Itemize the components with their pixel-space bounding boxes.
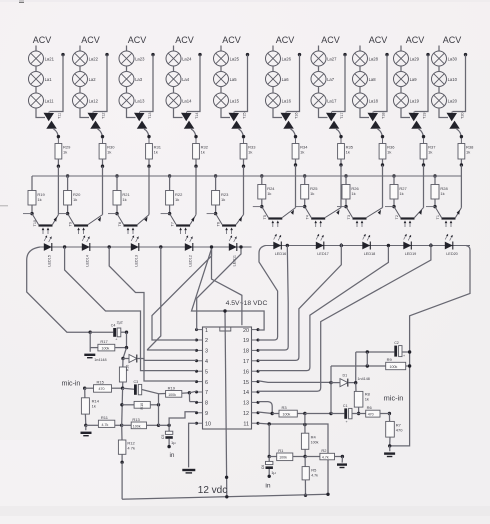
lamp La5 xyxy=(214,72,238,87)
resistor R27 1k xyxy=(390,185,408,200)
svg-text:C6: C6 xyxy=(261,465,265,469)
svg-text:4.7k: 4.7k xyxy=(102,423,109,427)
svg-text:T5: T5 xyxy=(263,215,267,219)
wire xyxy=(355,352,357,383)
node bus tap R20 xyxy=(66,174,69,177)
node ACV line 9 xyxy=(406,35,425,45)
svg-text:La13: La13 xyxy=(135,99,145,104)
svg-text:4: 4 xyxy=(205,359,208,365)
lamp La24 xyxy=(166,51,192,66)
wire xyxy=(374,55,388,112)
wire xyxy=(382,159,384,165)
node xyxy=(268,422,271,425)
svg-text:1k: 1k xyxy=(399,191,403,196)
node bus tap R23 xyxy=(214,174,217,177)
wire xyxy=(221,108,230,118)
wire xyxy=(389,446,391,451)
ground xyxy=(81,432,92,437)
wire xyxy=(94,55,108,112)
wire xyxy=(419,129,424,139)
svg-text:T12: T12 xyxy=(102,112,106,119)
wire staircase to pin 9 xyxy=(169,412,196,426)
label in left xyxy=(170,452,175,459)
svg-text:T4: T4 xyxy=(306,215,310,219)
node C6 top xyxy=(268,455,271,458)
wire xyxy=(318,46,320,52)
triac T11 xyxy=(44,112,62,129)
wire supply xyxy=(192,249,265,330)
wire xyxy=(220,66,222,72)
node AC terminal 6 xyxy=(298,53,301,56)
wire xyxy=(67,205,69,214)
diode D1 1n4148 xyxy=(331,373,370,386)
svg-text:1k: 1k xyxy=(428,150,432,155)
node ACV line 1 xyxy=(33,35,52,45)
svg-text:4 7k: 4 7k xyxy=(127,445,135,450)
node LED junction xyxy=(159,245,162,248)
node bus tap R26 xyxy=(344,174,347,177)
node bus tap R24 xyxy=(260,174,263,177)
capacitor C4 2µ2 xyxy=(90,320,126,341)
wire xyxy=(220,86,222,93)
node R30 foot xyxy=(101,165,104,168)
node C5 top xyxy=(167,424,170,427)
diode D2 1n4148 xyxy=(94,355,144,363)
wire xyxy=(295,159,297,165)
node rail center xyxy=(225,495,228,498)
svg-text:100k: 100k xyxy=(102,347,110,351)
wire xyxy=(366,352,368,366)
node ACV line 6 xyxy=(276,35,295,45)
svg-text:R17: R17 xyxy=(100,339,108,344)
svg-text:LED12: LED12 xyxy=(189,255,193,267)
svg-text:19: 19 xyxy=(243,338,249,344)
svg-text:+: + xyxy=(115,338,117,342)
svg-text:C5: C5 xyxy=(161,434,165,438)
svg-text:12 vdc: 12 vdc xyxy=(198,485,227,496)
svg-text:T14: T14 xyxy=(195,112,199,119)
svg-text:+: + xyxy=(403,354,405,358)
svg-text:T1: T1 xyxy=(436,215,440,219)
node ACV line 10 xyxy=(443,35,462,45)
node R17 right xyxy=(125,346,128,349)
wire xyxy=(189,391,196,393)
lamp La7 xyxy=(311,72,335,87)
wire xyxy=(31,176,33,191)
capacitor C3 xyxy=(123,380,159,395)
node gate 10 xyxy=(460,135,463,138)
node R37 foot xyxy=(422,163,425,166)
svg-text:1k: 1k xyxy=(201,150,205,155)
svg-text:1n4148: 1n4148 xyxy=(94,358,106,362)
wire xyxy=(243,166,245,214)
svg-text:La22: La22 xyxy=(89,57,99,62)
wire to pin 19 xyxy=(258,246,278,341)
node gate 6 xyxy=(294,135,297,138)
wire xyxy=(220,46,222,52)
svg-text:La24: La24 xyxy=(182,57,192,62)
svg-text:1µ: 1µ xyxy=(171,440,176,445)
svg-text:1k: 1k xyxy=(63,150,67,155)
svg-text:ACV: ACV xyxy=(276,35,295,45)
resistor R12 4.7k xyxy=(118,425,135,462)
node input node A xyxy=(89,331,92,334)
wire to pin 2 xyxy=(152,249,212,340)
svg-text:La9: La9 xyxy=(410,77,418,82)
wire xyxy=(173,46,175,52)
node R10 left xyxy=(120,403,123,406)
LED LED14 xyxy=(82,236,90,267)
capacitor C6 1µ xyxy=(261,457,276,476)
svg-text:6: 6 xyxy=(205,380,208,386)
wire xyxy=(332,55,345,112)
ground xyxy=(84,354,95,359)
svg-text:La25: La25 xyxy=(230,57,240,62)
svg-text:1k: 1k xyxy=(248,150,252,155)
wire xyxy=(438,86,440,93)
node C4 right xyxy=(125,331,128,334)
lamp La30 xyxy=(432,51,458,66)
resistor R19 100k xyxy=(159,385,190,397)
svg-text:2: 2 xyxy=(205,338,208,344)
node rail right corner xyxy=(326,493,329,496)
label 12 vdc xyxy=(198,485,227,496)
node diode D2 anode xyxy=(121,357,124,360)
svg-text:17: 17 xyxy=(243,359,249,365)
wire V+ drop through IC xyxy=(225,311,227,497)
lamp La1 xyxy=(29,72,53,87)
resistor R31 1k xyxy=(146,138,162,159)
svg-text:T20: T20 xyxy=(461,112,465,119)
svg-text:1k: 1k xyxy=(466,150,470,155)
svg-text:20: 20 xyxy=(243,328,249,334)
node in right xyxy=(268,475,271,478)
svg-text:R11: R11 xyxy=(101,415,109,420)
svg-text:100k: 100k xyxy=(133,424,141,428)
wire xyxy=(360,108,369,118)
wire xyxy=(173,66,175,72)
resistor R14 1k xyxy=(81,388,99,425)
wire xyxy=(235,55,248,112)
wire xyxy=(438,66,440,72)
resistor R37 1k xyxy=(420,138,436,159)
svg-text:LED15: LED15 xyxy=(48,255,52,267)
lamp La18 xyxy=(353,93,379,108)
node bus tap R21 xyxy=(115,174,118,177)
wire xyxy=(89,332,91,352)
svg-text:470: 470 xyxy=(368,412,374,416)
wire xyxy=(148,166,150,214)
transistor T7 (photo) xyxy=(161,212,196,234)
resistor R19 1k xyxy=(28,191,46,206)
resistor R21 1k xyxy=(113,191,131,206)
wire xyxy=(57,159,59,166)
wire xyxy=(423,165,425,208)
wire xyxy=(116,205,118,214)
capacitor C1 xyxy=(331,404,359,424)
node R14 foot xyxy=(84,424,87,427)
svg-text:1k: 1k xyxy=(175,197,179,202)
svg-text:1k: 1k xyxy=(365,396,369,401)
svg-text:mic-in: mic-in xyxy=(62,380,81,387)
node AC terminal 2 xyxy=(105,53,108,56)
svg-text:T19: T19 xyxy=(423,112,427,119)
node gate 8 xyxy=(381,135,384,138)
triac T20 xyxy=(447,112,465,129)
svg-text:1k: 1k xyxy=(154,150,158,155)
wire xyxy=(195,166,197,214)
wire xyxy=(261,176,263,185)
node R9 right xyxy=(408,364,411,367)
node AC terminal 1 xyxy=(61,53,64,56)
svg-text:La20: La20 xyxy=(448,99,458,104)
wire xyxy=(31,205,33,214)
transistor T2 (photo) xyxy=(385,205,424,227)
svg-text:R19: R19 xyxy=(168,385,176,390)
resistor R32 1k xyxy=(193,138,209,159)
svg-text:T6: T6 xyxy=(217,222,221,226)
resistor R2 4.7k xyxy=(305,448,342,460)
wire xyxy=(79,86,81,93)
svg-text:11: 11 xyxy=(243,421,249,427)
wire xyxy=(239,129,244,139)
resistor R17 100k xyxy=(90,339,126,351)
wire LED11 to pin 1 xyxy=(197,249,242,330)
node R33 foot xyxy=(242,165,245,168)
svg-text:T10: T10 xyxy=(33,220,37,227)
LED LED19 xyxy=(403,234,416,256)
wire to pin 18 xyxy=(258,246,288,351)
triac T17 xyxy=(326,112,344,129)
svg-text:14: 14 xyxy=(243,390,249,396)
svg-text:La28: La28 xyxy=(369,57,379,62)
wire xyxy=(439,108,448,118)
wire xyxy=(340,159,342,165)
node gate 3 xyxy=(147,135,150,138)
lamp La11 xyxy=(29,93,55,108)
svg-text:T15: T15 xyxy=(243,112,247,119)
node R13 right xyxy=(157,424,160,427)
node R8 foot xyxy=(357,412,360,415)
resistor R7 470 xyxy=(386,414,404,446)
node ACV line 3 xyxy=(128,35,147,45)
lamp La19 xyxy=(394,93,420,108)
lamp La16 xyxy=(266,93,292,108)
label in right xyxy=(265,483,270,490)
svg-text:La4: La4 xyxy=(182,77,190,82)
node in left xyxy=(167,445,170,448)
svg-text:T3: T3 xyxy=(347,215,351,219)
wire LED row right xyxy=(266,245,471,247)
wire xyxy=(127,108,136,118)
wire xyxy=(35,86,37,93)
wire xyxy=(57,166,59,214)
resistor R24 1k xyxy=(258,185,276,200)
wire xyxy=(359,66,361,72)
svg-text:1: 1 xyxy=(205,328,208,334)
wire xyxy=(169,205,171,214)
svg-text:La14: La14 xyxy=(182,99,192,104)
svg-text:1k: 1k xyxy=(107,150,111,155)
node ACV line 7 xyxy=(321,35,340,45)
svg-text:100k: 100k xyxy=(168,393,176,397)
wire xyxy=(318,86,320,93)
svg-text:La17: La17 xyxy=(327,99,337,104)
node C2 left xyxy=(366,350,369,353)
wire to pin 5 xyxy=(65,247,197,371)
svg-text:16: 16 xyxy=(243,369,249,375)
svg-text:12: 12 xyxy=(243,411,249,417)
node R12 foot xyxy=(120,461,123,464)
wire xyxy=(169,176,171,191)
wire xyxy=(341,457,343,463)
svg-text:R4: R4 xyxy=(311,435,317,440)
wire xyxy=(359,46,361,52)
svg-text:ACV: ACV xyxy=(443,35,462,45)
triac T14 xyxy=(181,112,199,129)
resistor R34 1k xyxy=(292,138,308,159)
wire xyxy=(215,205,217,214)
svg-text:T11: T11 xyxy=(58,113,62,119)
svg-text:La1: La1 xyxy=(45,77,53,82)
resistor R22 1k xyxy=(166,191,184,206)
svg-text:C2: C2 xyxy=(394,341,399,345)
wire xyxy=(195,159,197,166)
svg-text:1k: 1k xyxy=(92,404,96,409)
node R35 foot xyxy=(339,163,342,166)
lamp La22 xyxy=(73,51,99,66)
wire xyxy=(340,165,342,208)
svg-text:T9: T9 xyxy=(69,222,73,226)
node R36 foot xyxy=(381,163,384,166)
node gate 9 xyxy=(422,135,425,138)
svg-text:R13: R13 xyxy=(132,417,140,422)
wire xyxy=(305,413,331,415)
svg-text:T16: T16 xyxy=(295,112,299,119)
wire to pin 14 xyxy=(258,243,431,391)
node LED junction xyxy=(108,245,111,248)
svg-text:La3: La3 xyxy=(135,77,143,82)
svg-text:5: 5 xyxy=(205,369,208,375)
wire xyxy=(359,86,361,93)
wire xyxy=(187,55,200,112)
resistor R36 1k xyxy=(379,138,395,159)
resistor R28 1k xyxy=(431,185,449,200)
wire pin 10 ground xyxy=(189,423,197,467)
lamp La25 xyxy=(214,51,240,66)
svg-text:3: 3 xyxy=(205,349,208,355)
svg-text:1k: 1k xyxy=(221,197,225,202)
svg-text:1µ: 1µ xyxy=(271,470,276,475)
svg-text:LED14: LED14 xyxy=(86,255,90,267)
wire xyxy=(345,199,347,207)
svg-text:2µ2: 2µ2 xyxy=(117,320,123,324)
svg-text:La5: La5 xyxy=(230,77,238,82)
resistor R25 1k xyxy=(301,185,319,200)
wire xyxy=(126,332,128,347)
node R2 right xyxy=(341,455,344,458)
wire xyxy=(457,129,462,139)
wire xyxy=(116,176,118,191)
svg-text:470: 470 xyxy=(99,387,105,391)
node bus tap R22 xyxy=(168,174,171,177)
wire xyxy=(148,159,150,166)
wire xyxy=(102,159,104,166)
resistor R10 xyxy=(122,401,159,409)
wire xyxy=(80,108,89,118)
svg-text:LED16: LED16 xyxy=(275,252,287,256)
node AC terminal 8 xyxy=(385,53,388,56)
resistor R35 1k xyxy=(338,138,354,159)
wire xyxy=(121,462,123,499)
wire xyxy=(434,199,436,207)
svg-text:1k: 1k xyxy=(310,191,314,196)
svg-text:R6: R6 xyxy=(367,405,373,410)
wire xyxy=(304,199,306,207)
wire pin 15 to D1 xyxy=(258,381,331,383)
svg-text:1n4148: 1n4148 xyxy=(358,377,370,381)
node mic-in right xyxy=(388,412,391,415)
resistor R5 4.7k xyxy=(302,457,318,496)
label 4.5V~18 VDC xyxy=(226,300,268,307)
svg-text:T17: T17 xyxy=(340,112,344,119)
node R31 foot xyxy=(147,165,150,168)
lamp La2 xyxy=(73,72,97,87)
node AC terminal 10 xyxy=(464,53,467,56)
node bus tap R28 xyxy=(433,174,436,177)
wire xyxy=(330,366,332,414)
lamp La14 xyxy=(166,93,192,108)
wire xyxy=(295,165,297,208)
node R4 foot xyxy=(303,455,306,458)
wire xyxy=(144,129,149,139)
svg-text:La11: La11 xyxy=(45,99,55,104)
svg-text:C3: C3 xyxy=(134,380,139,384)
lamp La26 xyxy=(266,51,292,66)
wire xyxy=(54,129,59,139)
wire xyxy=(126,86,128,93)
svg-text:1k: 1k xyxy=(73,197,77,202)
node AC terminal 9 xyxy=(426,53,429,56)
triac T16 xyxy=(281,112,299,129)
node gate 2 xyxy=(101,135,104,138)
wire to pin 16 xyxy=(258,247,388,371)
node bus tap R25 xyxy=(303,174,306,177)
svg-text:10: 10 xyxy=(205,421,211,427)
ground xyxy=(384,452,395,457)
svg-text:R15: R15 xyxy=(97,380,105,385)
svg-text:100k: 100k xyxy=(390,365,398,369)
svg-text:4.7k: 4.7k xyxy=(311,473,318,477)
svg-text:15: 15 xyxy=(243,380,249,386)
wire xyxy=(382,165,384,208)
wire xyxy=(438,46,440,52)
svg-text:La15: La15 xyxy=(230,99,240,104)
node LED junction xyxy=(387,244,390,247)
node R5 on rail xyxy=(304,494,307,497)
node R29 foot xyxy=(57,165,60,168)
svg-text:R10: R10 xyxy=(140,403,144,410)
wire xyxy=(272,66,274,72)
node below U1 xyxy=(225,476,228,479)
node xyxy=(329,412,332,415)
svg-text:ACV: ACV xyxy=(369,35,388,45)
wire xyxy=(345,176,347,185)
svg-text:LED17: LED17 xyxy=(317,252,329,256)
wire xyxy=(189,393,196,402)
resistor R33 1k xyxy=(240,138,256,159)
node LED junction xyxy=(63,245,66,248)
